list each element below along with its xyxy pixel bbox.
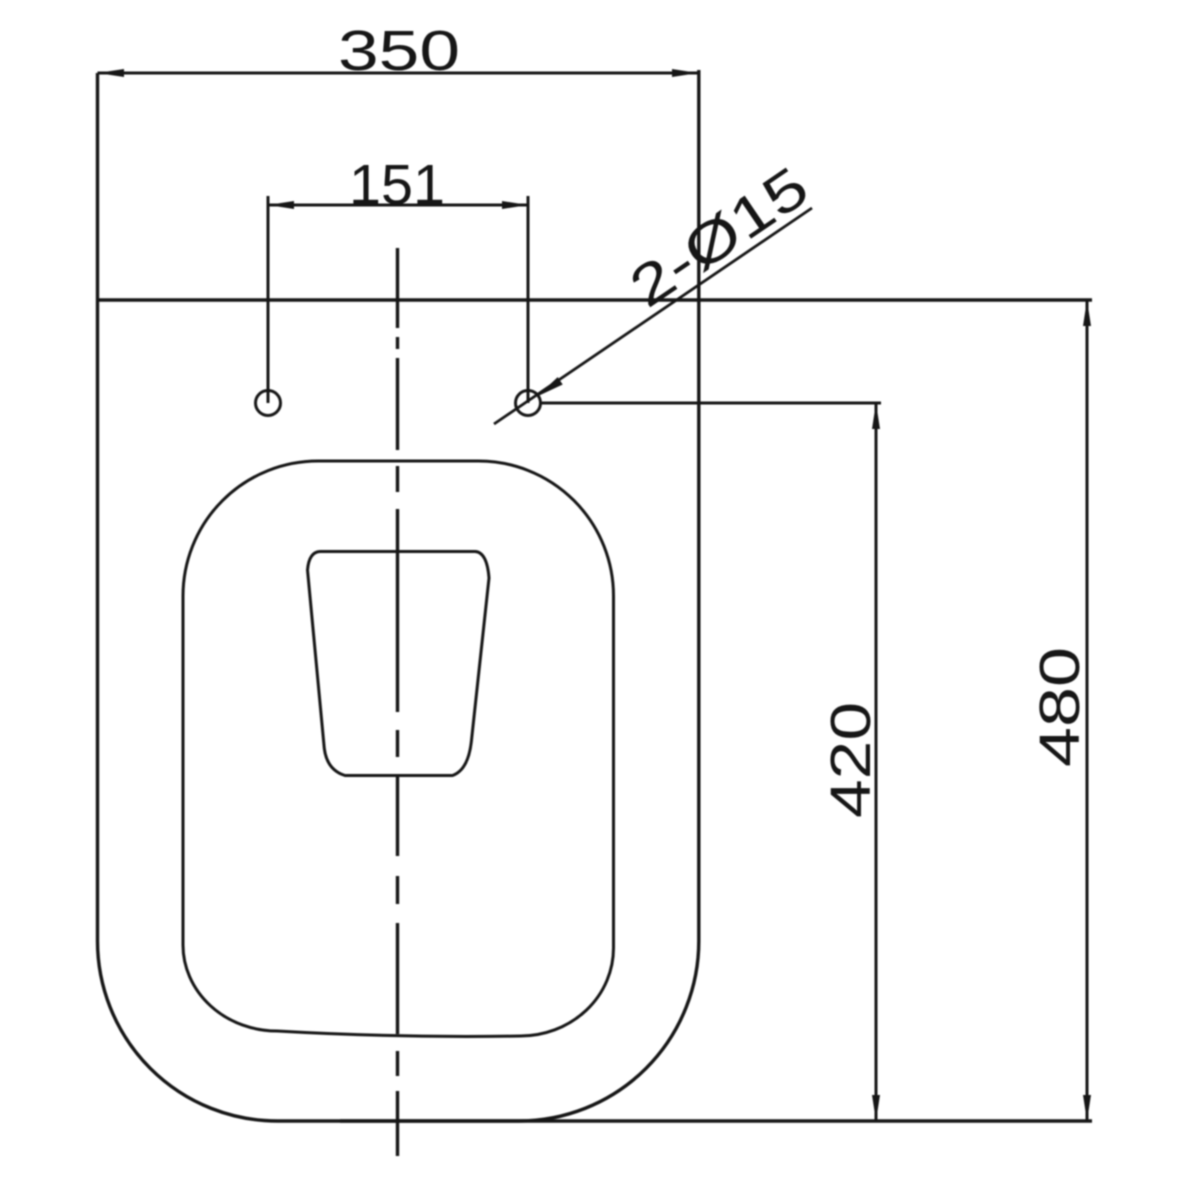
hole axis extension line (to 420 dim)	[540, 402, 881, 405]
arrowhead 420 top	[872, 403, 880, 429]
dimension 151: right extension line down to hole	[527, 196, 530, 403]
leader line for 2-Ø15	[494, 208, 812, 424]
mounting hole left	[256, 391, 281, 416]
arrowhead 151 left	[268, 201, 294, 209]
svg-text:2-Ø15: 2-Ø15	[619, 155, 820, 320]
arrowhead 151 right	[502, 201, 528, 209]
dimension 350: dimension line	[98, 72, 699, 75]
arrowhead 350 left	[98, 69, 125, 77]
arrowhead 480 bottom	[1083, 1095, 1091, 1121]
svg-text:420: 420	[819, 702, 883, 818]
dimension 151: dimension line	[268, 204, 528, 207]
arrowhead leader (points to hole)	[537, 377, 563, 396]
dimension 151: left extension line down to hole	[267, 196, 270, 403]
arrowhead 420 bottom	[872, 1095, 880, 1121]
mounting hole right	[516, 391, 541, 416]
bottom extension line	[340, 1119, 1092, 1122]
svg-text:480: 480	[1028, 647, 1092, 767]
centerline (dashed vertical axis)	[396, 248, 399, 1156]
body top edge / 480 extension line	[96, 298, 1092, 301]
seat ring outline	[183, 461, 614, 1036]
dimension 420: dimension line	[875, 403, 878, 1121]
svg-text:151: 151	[349, 153, 445, 217]
svg-text:350: 350	[338, 19, 460, 83]
arrowhead 480 top	[1083, 300, 1091, 326]
body outline (left edge, bottom curve, right edge)	[98, 70, 699, 1121]
arrowhead 350 right	[672, 69, 698, 77]
dimension 480: dimension line	[1086, 300, 1089, 1121]
sump trapezoid	[308, 552, 490, 776]
